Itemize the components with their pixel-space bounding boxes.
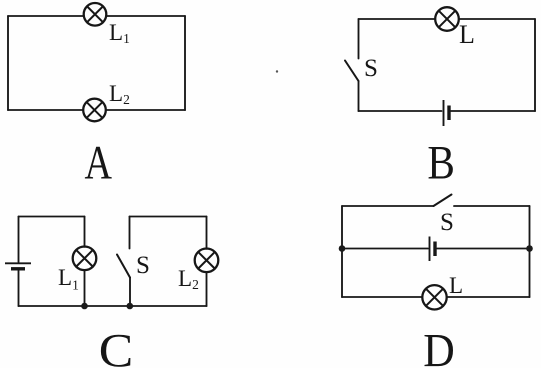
battery (circuit C) long plate [5,262,31,264]
wire B left lower [358,81,360,111]
lamp L (circuit D) [422,285,446,309]
svg-text:L2: L2 [178,266,199,292]
wire C lamp L1 branch lower [84,270,86,306]
wire C battery branch lower [18,271,20,307]
wire C top-right loop [130,216,207,218]
wire B bottom-right segment [451,110,535,112]
wire C lamp L2 branch lower [206,272,208,306]
lamp L [435,7,459,31]
lamp L1 [84,3,107,26]
lamp L2 (circuit C) [195,248,219,272]
wire B top-left segment [359,18,435,20]
battery (circuit B) short plate [447,106,450,121]
svg-text:A: A [85,137,113,190]
svg-text:L1: L1 [109,20,130,46]
wire D right [529,206,531,297]
wire C bottom rail [19,305,207,307]
svg-text:C: C [99,325,134,368]
svg-text:B: B [427,137,455,190]
wire B right [534,19,536,111]
battery (circuit D) long plate [429,237,431,262]
node junction dot left (circuit D) [339,245,346,252]
wire D bottom-right segment [447,296,530,298]
svg-text:D: D [423,325,455,368]
node junction dot right (circuit D) [526,245,533,252]
lamp L2 [83,99,106,122]
wire C switch branch lower [129,278,131,307]
wire D bottom-left segment [342,296,422,298]
wire A top-right segment [107,15,186,17]
wire A left [7,16,9,110]
wire D middle-right segment [437,248,530,250]
wire A bottom-right segment [106,109,185,111]
svg-text:S: S [440,209,454,236]
wire D top-left segment [342,205,434,207]
wire C top-left loop [19,216,85,218]
wire A right [184,16,186,110]
svg-text:S: S [364,55,378,82]
wire D middle-left segment [342,248,428,250]
switch S (circuit C) blade [117,255,130,278]
wire C lamp L2 branch upper [206,217,208,249]
node junction dot left (circuit C) [81,303,88,310]
battery (circuit C) short plate [11,267,25,270]
wire D left [341,206,343,297]
battery (circuit B) long plate [443,100,445,126]
wire A bottom-left segment [8,109,83,111]
svg-text:S: S [136,252,150,279]
switch S (circuit D) blade [434,195,452,207]
switch S (circuit B) blade [345,61,359,82]
wire C battery branch upper [18,217,20,263]
wire C lamp L1 branch upper [84,217,86,247]
lamp L1 (circuit C) [73,246,97,270]
svg-text:L: L [459,20,475,49]
svg-text:L2: L2 [109,81,130,107]
scan speck [276,70,278,72]
wire B top-right segment [460,18,536,20]
battery (circuit D) short plate [433,242,436,257]
wire C switch branch upper [129,217,131,249]
svg-text:L: L [449,273,463,298]
wire A top-left segment [8,15,84,17]
node junction dot right (circuit C) [127,303,134,310]
svg-text:L1: L1 [58,265,79,293]
wire B left upper [358,19,360,59]
wire B bottom-left segment [359,110,442,112]
wire D top-right segment [454,205,530,207]
